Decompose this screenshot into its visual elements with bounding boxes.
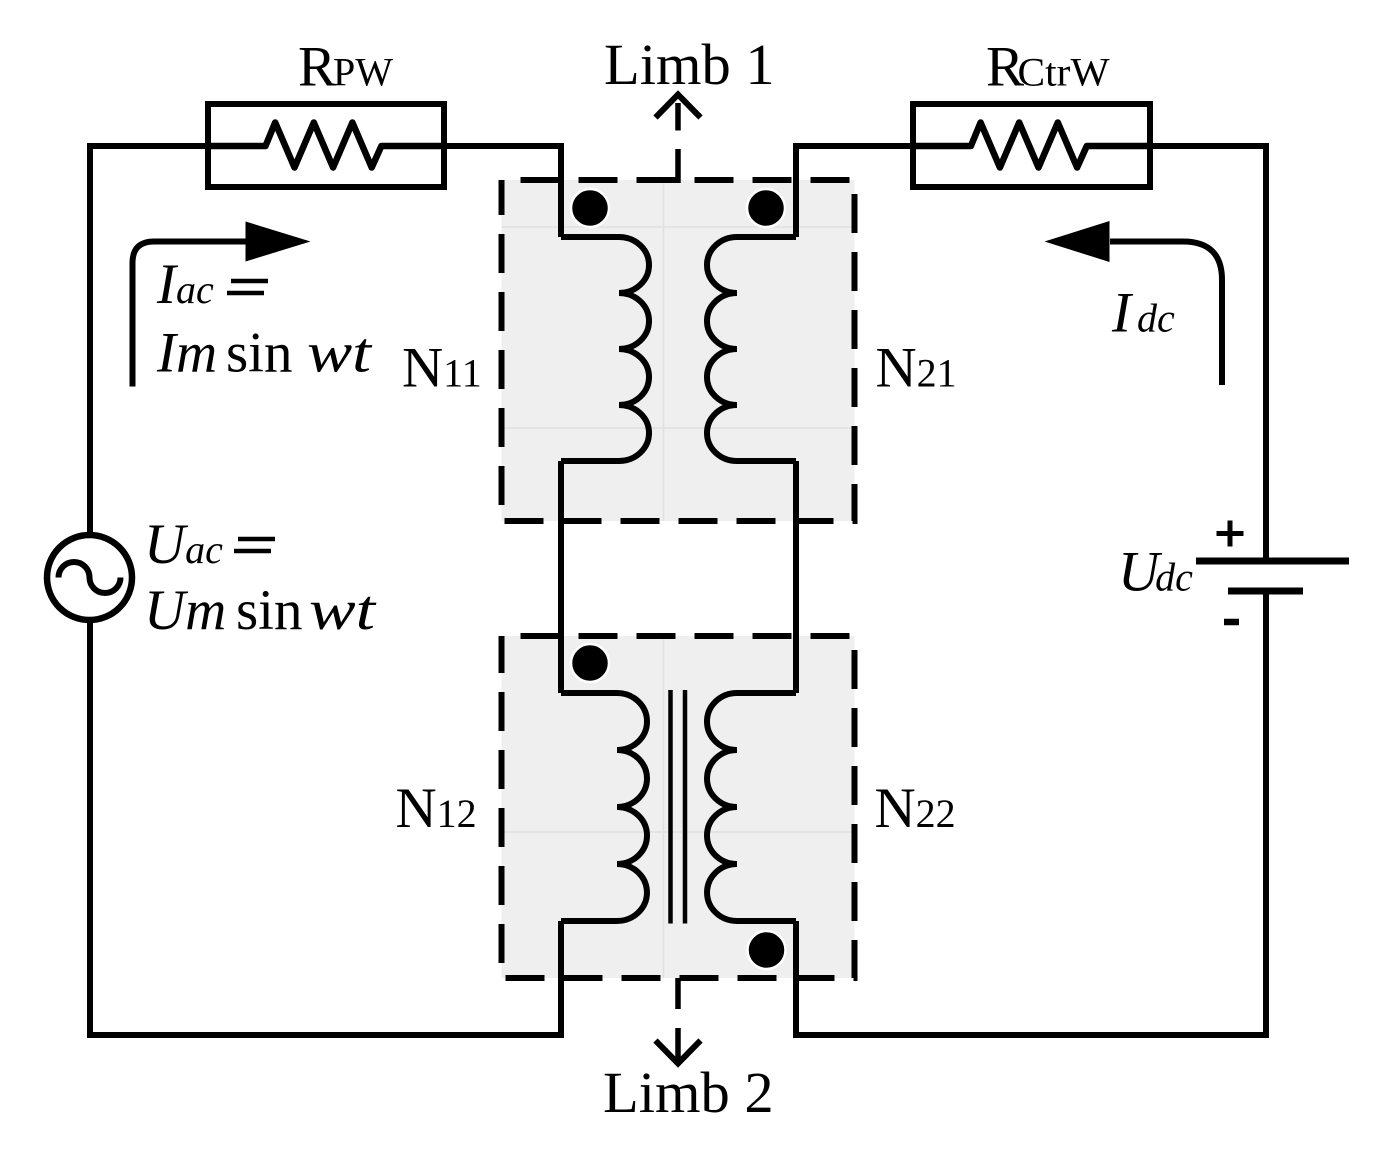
winding N22 <box>707 693 796 921</box>
Limb 2 arrowhead <box>656 1041 701 1064</box>
transformer winding region box 2 (Limb 2, shaded) <box>502 636 855 978</box>
battery minus sign <box>1224 619 1239 626</box>
wire N12 bottom to bottom rail <box>558 921 564 1035</box>
resistor RPW box <box>208 104 444 187</box>
svg-text:Limb 1: Limb 1 <box>604 32 775 97</box>
battery Udc short plate (-) <box>1228 588 1303 595</box>
Limb 1 arrowhead <box>656 95 701 118</box>
transformer core lines <box>671 690 686 924</box>
winding N12 <box>561 693 647 921</box>
winding N21 <box>707 237 796 461</box>
wire N11 bottom to N12 top <box>558 461 564 693</box>
wire N22 bottom to bottom rail <box>796 591 1266 1035</box>
AC source sine symbol <box>59 562 121 593</box>
equals sign after Uac <box>234 539 275 551</box>
wire N21 bottom to N22 top <box>793 461 799 693</box>
equals sign after Iac <box>227 281 268 293</box>
battery Udc long plate (+) <box>1196 558 1349 565</box>
wire from RCtrW to N21 top terminal <box>796 146 913 237</box>
wire from RPW to N11 top terminal <box>444 146 561 237</box>
winding N11 <box>561 237 649 461</box>
polarity dot N21 <box>747 189 785 227</box>
wire left loop: top-left, left side, bottom-left <box>90 146 564 1035</box>
resistor RPW zigzag <box>208 123 444 168</box>
polarity dot N12 <box>571 644 609 682</box>
svg-text:Limb 2: Limb 2 <box>603 1060 774 1125</box>
svg-text:Imsinwt: Imsinwt <box>156 322 372 385</box>
battery plus sign <box>1217 521 1244 547</box>
transformer winding region box 1 (Limb 1, shaded) <box>502 180 855 521</box>
polarity dot N22 <box>748 931 786 969</box>
AC source circle <box>47 535 132 620</box>
Iac current arrow curve <box>133 242 247 387</box>
Idc current arrow curve <box>1110 242 1222 386</box>
Iac arrowhead <box>246 222 311 262</box>
resistor RCtrW zigzag <box>913 123 1150 168</box>
Limb 1 dashed arrow shaft <box>675 103 681 183</box>
resistor RCtrW box <box>913 104 1150 187</box>
wire right side top: battery to RCtrW <box>1150 146 1266 561</box>
Limb 2 dashed arrow shaft <box>675 978 681 1061</box>
Idc arrowhead <box>1045 221 1110 262</box>
polarity dot N11 <box>571 189 609 227</box>
svg-text:Umsinwt: Umsinwt <box>144 579 376 642</box>
